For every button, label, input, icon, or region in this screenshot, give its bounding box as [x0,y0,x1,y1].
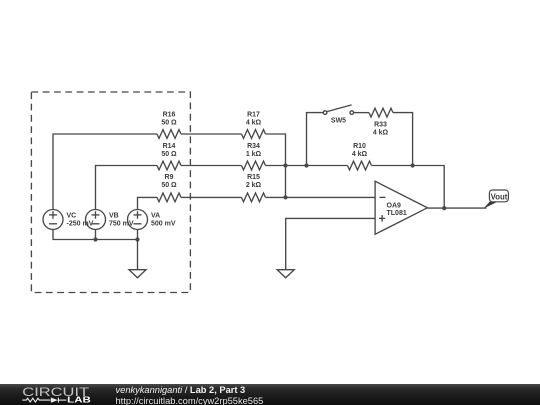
label R9 value [161,174,177,189]
resistor R17 [242,130,266,139]
resistor R33 [369,108,393,117]
wire R17 output to summing node [266,134,286,197]
resistor R34 [242,161,266,170]
wire SW5 branch left leg [307,113,324,166]
label R16 value [161,112,177,127]
svg-text:4 kΩ: 4 kΩ [373,130,389,137]
wire R33 right leg down to feedback row [393,113,413,166]
ground (sources) [129,270,146,278]
wire R10 to output leg [372,166,445,209]
wire R15 to op-amp inverting input [266,196,376,198]
footer url line [116,396,264,405]
svg-text:R14: R14 [163,143,176,150]
junction node inverting input [283,195,287,199]
op-amp OA9 triangle [375,181,427,234]
wire SW5 to R33 [354,112,369,114]
junction node SW5 left [304,163,308,167]
svg-text:2 kΩ: 2 kΩ [246,182,262,189]
label R14 value [161,143,177,158]
wire R9 to R15 [181,196,242,198]
junction node summing (R34 row / R17 leg) [283,163,287,167]
resistor R16 [157,130,181,139]
svg-text:750 mV: 750 mV [109,220,134,227]
wire VA top to R9 row [138,197,158,209]
resistor R10 [348,161,372,170]
wire VB top to R14 row [96,166,158,210]
svg-text:LAB: LAB [67,395,91,405]
label R17 value [246,112,262,127]
svg-text:TL081: TL081 [387,210,407,217]
ground (noninverting input) [277,270,294,278]
svg-text:50 Ω: 50 Ω [161,151,177,158]
wire VA bottom to ground [137,230,139,270]
svg-text:4 kΩ: 4 kΩ [246,120,262,127]
CircuitLab logo [0,384,110,405]
label VA value [151,213,176,228]
junction node VA bus [135,237,139,241]
svg-text:50 Ω: 50 Ω [161,120,177,127]
wire op-amp noninverting input to ground [286,218,376,269]
wire VB bottom stub [95,230,97,240]
svg-text:VC: VC [67,213,77,220]
dashed enclosure box [31,92,190,293]
svg-text:R34: R34 [247,143,260,150]
svg-text:OA9: OA9 [387,203,402,210]
label R15 value [246,174,262,189]
svg-text:R33: R33 [374,121,387,128]
footer bar [0,384,540,405]
label R10 value [352,143,368,158]
junction node VB bus [93,237,97,241]
label R33 value [373,121,389,136]
voltage source VA [128,210,148,230]
wire R34 to R10 (feedback row) [266,165,348,167]
wire R16 to R17 [181,133,242,135]
svg-text:R9: R9 [165,174,174,181]
svg-text:R15: R15 [247,174,260,181]
resistor R15 [242,193,266,202]
resistor R9 [157,193,181,202]
wire VC top to R16 row [53,134,157,210]
svg-text:R10: R10 [353,143,366,150]
op-amp plus mark [379,215,385,222]
svg-text:500 mV: 500 mV [151,220,176,227]
svg-text:Vout: Vout [491,192,508,201]
label OA9 [387,203,407,217]
wire R14 to R34 [181,165,242,167]
net flag Vout [484,190,509,209]
label R34 value [246,143,262,158]
svg-text:R17: R17 [247,112,260,119]
svg-text:-250 mV: -250 mV [67,220,94,227]
wire op-amp output to Vout [427,207,486,209]
svg-text:50 Ω: 50 Ω [161,182,177,189]
svg-text:VA: VA [151,213,160,220]
label VC value [67,213,94,228]
switch SW5 [323,105,353,114]
voltage source VB [86,210,106,230]
wire source bottom bus [53,230,138,240]
svg-text:VB: VB [109,213,119,220]
footer title line [116,385,246,395]
svg-text:SW5: SW5 [331,118,346,125]
voltage source VC [43,210,63,230]
svg-text:R16: R16 [163,112,176,119]
junction node R33 right [411,163,415,167]
junction node output [442,206,446,210]
label VB value [109,213,134,228]
resistor R14 [157,161,181,170]
svg-text:1 kΩ: 1 kΩ [246,151,262,158]
svg-text:4 kΩ: 4 kΩ [352,151,368,158]
op-amp minus mark [380,196,386,198]
